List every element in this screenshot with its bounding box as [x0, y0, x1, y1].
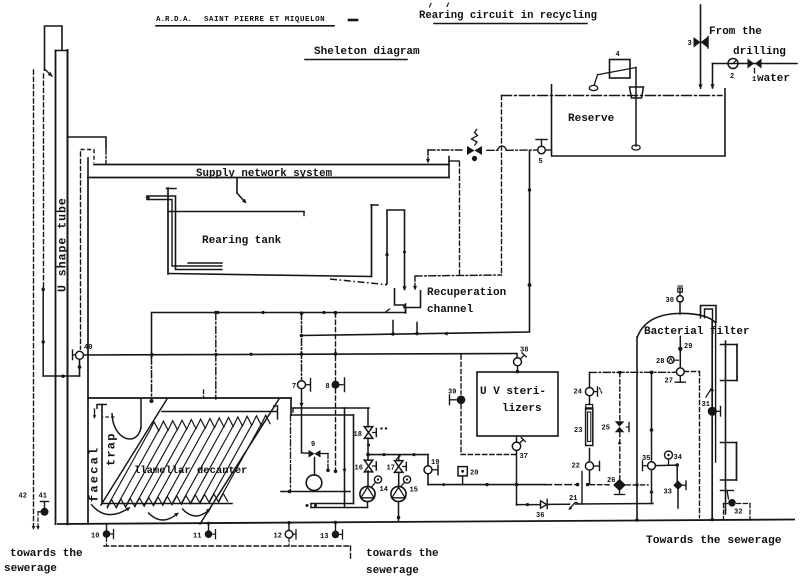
- stub x393: [391, 321, 394, 336]
- lamella bottom zigzag: [107, 494, 228, 509]
- svg-text:Recuperation: Recuperation: [427, 287, 506, 299]
- valve 27: [665, 368, 686, 386]
- valve 40: [43, 344, 92, 378]
- check valve 36: [536, 499, 547, 520]
- dashed stub into decanter: [203, 390, 205, 398]
- svg-text:4: 4: [616, 51, 620, 59]
- valve 33: [664, 481, 687, 509]
- pump manifold: [366, 453, 428, 457]
- svg-text:12: 12: [274, 533, 282, 541]
- drop pipe from channel to rearing tank: [237, 178, 248, 205]
- air valve 30: [666, 286, 684, 314]
- water meter 2: [728, 59, 738, 82]
- valve 21: [567, 495, 578, 511]
- svg-text:23: 23: [574, 427, 582, 435]
- filter right wall: [725, 341, 727, 514]
- valve 6 solenoid: [467, 129, 482, 161]
- svg-text:19: 19: [431, 459, 439, 467]
- svg-text:towards the: towards the: [366, 548, 439, 560]
- gauge 34: [665, 451, 682, 465]
- svg-text:9: 9: [311, 441, 315, 449]
- svg-text:40: 40: [84, 344, 92, 352]
- pipe to valve 21: [548, 503, 570, 505]
- svg-text:Towards the sewerage: Towards the sewerage: [646, 535, 782, 547]
- pump 14: [360, 471, 388, 508]
- label From the drilling water: [709, 26, 790, 85]
- motor 28: [656, 357, 679, 366]
- dashed trap connection: [102, 409, 115, 417]
- svg-text:29: 29: [684, 343, 692, 351]
- rotameter 23: [574, 405, 593, 446]
- svg-text:11: 11: [193, 533, 201, 541]
- svg-text:U V steri-: U V steri-: [480, 386, 546, 398]
- feed arrow into channel from valve 6 line: [426, 150, 430, 164]
- svg-text:lizers: lizers: [502, 403, 542, 415]
- float valve 4 controller box: [589, 51, 643, 150]
- pump discharge line y333: [300, 332, 530, 338]
- bypass down from UV outlet: [517, 485, 541, 507]
- dashed level control line down: [501, 96, 503, 276]
- svg-text:llamellar decanter: llamellar decanter: [134, 465, 247, 477]
- dashed drain line left: [33, 70, 35, 526]
- recuperation channel cup: [395, 288, 421, 308]
- lamella plates: [107, 424, 261, 507]
- pipe from tube to supply channel: [68, 137, 107, 163]
- decanter outlet pipe: [291, 408, 369, 508]
- valve 17: [387, 455, 407, 473]
- svg-text:8: 8: [326, 383, 330, 391]
- junction dots bottom: [635, 518, 714, 522]
- filter downpipe: [706, 320, 716, 519]
- svg-text:trap: trap: [105, 432, 119, 466]
- svg-text:1: 1: [752, 76, 756, 84]
- main bottom line: [57, 520, 795, 525]
- svg-text:10: 10: [91, 533, 99, 541]
- supply network channel: [88, 157, 459, 178]
- svg-text:25: 25: [602, 425, 610, 433]
- svg-text:Rearing circuit in recycling: Rearing circuit in recycling: [419, 10, 597, 22]
- svg-text:sewerage: sewerage: [4, 563, 57, 575]
- dashed return line from valve 27: [684, 372, 699, 518]
- svg-text:sewerage: sewerage: [366, 565, 419, 577]
- svg-text:14: 14: [380, 486, 388, 494]
- riser to valve 35: [649, 470, 653, 504]
- riser to valve 18: [367, 409, 369, 428]
- svg-text:From the: From the: [709, 26, 762, 38]
- svg-text:26: 26: [607, 477, 615, 485]
- valve 9: [309, 441, 330, 472]
- arrow into tube: [45, 69, 54, 78]
- blower circle: [281, 458, 350, 494]
- svg-text:27: 27: [665, 378, 673, 386]
- filter vent bend: [701, 306, 717, 324]
- filter module bracket 2: [721, 443, 737, 481]
- svg-text:SAINT PIERRE ET MIQUELON: SAINT PIERRE ET MIQUELON: [204, 16, 325, 24]
- valve 18: [354, 427, 388, 447]
- valve 38: [514, 347, 529, 374]
- svg-text:28: 28: [656, 358, 664, 366]
- title A.R.D.A. SAINT PIERRE ET MIQUELON: [156, 16, 357, 26]
- title Rearing circuit in recycling: [419, 3, 597, 24]
- decanter inner tank: [97, 405, 232, 504]
- dashed line channel end to recuperation: [459, 162, 461, 275]
- pump 15: [391, 472, 418, 521]
- svg-text:21: 21: [569, 495, 577, 503]
- dash-dot return line y275: [415, 275, 502, 276]
- svg-text:faecal: faecal: [88, 446, 102, 502]
- svg-text:31: 31: [702, 401, 710, 409]
- label Recuperation channel: [427, 287, 506, 316]
- svg-text:22: 22: [572, 463, 580, 471]
- svg-text:5: 5: [539, 158, 543, 166]
- water level line: [502, 95, 723, 97]
- rearing tank inlet pipe: [145, 196, 223, 270]
- svg-text:13: 13: [320, 533, 328, 541]
- svg-text:Bacterial filter: Bacterial filter: [644, 326, 750, 338]
- pipe valve18 to manifold: [367, 438, 369, 460]
- svg-text:A.R.D.A.: A.R.D.A.: [156, 16, 192, 24]
- pipe to bacterial filter x651: [650, 372, 654, 461]
- drain valve 12: [274, 521, 297, 546]
- bacterial filter left wall: [636, 337, 638, 521]
- main treated line y354 valve40 to UV: [84, 352, 518, 356]
- svg-text:37: 37: [520, 453, 528, 461]
- drain valve 13: [320, 521, 343, 541]
- drain valve 10: [91, 524, 114, 546]
- svg-text:17: 17: [387, 465, 395, 473]
- svg-text:Rearing tank: Rearing tank: [202, 235, 282, 247]
- dash-dot drop x215: [214, 311, 217, 399]
- sensor 29: [678, 343, 692, 351]
- svg-text:33: 33: [664, 489, 672, 497]
- svg-text:39: 39: [448, 389, 456, 397]
- stub x582: [581, 472, 583, 504]
- valve 16: [355, 460, 377, 472]
- label towards the sewerage left: [4, 548, 83, 575]
- decanter outer box: [88, 398, 291, 415]
- filter inlet pipe: [679, 337, 681, 368]
- dashed sewer collector: [104, 546, 351, 561]
- drop to faecal trap x151: [150, 313, 154, 404]
- dashed vertical to valve 40: [80, 152, 82, 349]
- svg-text:16: 16: [355, 465, 363, 473]
- svg-text:38: 38: [520, 347, 528, 355]
- U shape tube top bend: [45, 26, 63, 71]
- drilling water supply line: [698, 5, 797, 89]
- svg-text:34: 34: [674, 454, 682, 462]
- svg-text:30: 30: [666, 297, 674, 305]
- pump 31: [702, 401, 721, 416]
- discharge line y484: [428, 483, 589, 487]
- dashed bypass valve 25: [602, 373, 630, 480]
- svg-text:water: water: [757, 73, 790, 85]
- decanter water line: [162, 406, 278, 419]
- dashed branch to channel: [81, 150, 95, 164]
- valve 24: [574, 387, 603, 405]
- decanter right slant: [200, 399, 279, 524]
- svg-text:41: 41: [39, 493, 47, 501]
- svg-text:18: 18: [354, 431, 362, 439]
- svg-text:32: 32: [734, 509, 742, 517]
- valve 19: [424, 455, 439, 485]
- label 42 dashed drain: [19, 493, 40, 531]
- label U V sterilizers: [480, 386, 546, 415]
- svg-text:channel: channel: [427, 304, 474, 316]
- inlet arrow into trap: [93, 409, 96, 419]
- valve 22: [572, 449, 600, 485]
- U shape tube walls: [56, 50, 68, 524]
- riser pipe x530: [528, 151, 532, 332]
- pipe down from supply channel left: [87, 178, 89, 524]
- faecal trap pipe: [112, 399, 141, 439]
- svg-text:20: 20: [470, 470, 478, 478]
- stub x417: [415, 323, 418, 336]
- dashed arrow into cup: [413, 277, 417, 291]
- dash-dot header y372: [590, 371, 677, 388]
- decanter wall air line: [290, 415, 292, 490]
- reserve tank: [552, 84, 726, 156]
- return main line y312: [152, 304, 405, 314]
- sludge arc 3: [182, 507, 212, 516]
- branch valve 7: [292, 311, 311, 453]
- filter module bracket 1: [721, 345, 738, 381]
- valve 5: [536, 140, 547, 167]
- svg-text:15: 15: [410, 487, 418, 495]
- pressure switch 20: [458, 467, 478, 485]
- svg-text:3: 3: [688, 40, 692, 48]
- dashed bypass valve 39: [448, 355, 516, 455]
- sloped drain under tank: [330, 279, 387, 285]
- svg-text:42: 42: [19, 493, 27, 501]
- dashed line from U tube leg: [43, 74, 45, 288]
- sludge arc 2: [148, 511, 180, 520]
- svg-text:24: 24: [574, 389, 582, 397]
- standpipe siphon: [385, 210, 407, 291]
- svg-text:towards the: towards the: [10, 548, 83, 560]
- svg-text:35: 35: [642, 455, 650, 463]
- lamella top zigzag: [150, 415, 271, 431]
- rearing tank walls: [167, 188, 379, 277]
- branch to valve 33: [655, 463, 679, 481]
- UV sterilizers box: [477, 372, 558, 436]
- drain valve 11: [193, 522, 216, 541]
- svg-text:7: 7: [292, 383, 296, 391]
- title Sheleton diagram: [305, 46, 420, 60]
- branch valve 8 dashed: [326, 311, 345, 473]
- svg-text:drilling: drilling: [733, 46, 786, 58]
- valve 35: [642, 455, 655, 471]
- svg-text:36: 36: [536, 512, 544, 520]
- drain valve 32: [721, 491, 751, 519]
- dash-dot line valve6 to reserve: [428, 146, 552, 150]
- svg-text:2: 2: [730, 73, 734, 81]
- sludge arc 1: [91, 504, 132, 515]
- valve 3: [688, 37, 709, 49]
- valve 37: [512, 436, 528, 485]
- decanter left slant: [101, 399, 167, 505]
- bacterial filter dome: [637, 313, 716, 338]
- svg-text:Sheleton diagram: Sheleton diagram: [314, 46, 420, 58]
- sludge valve 41: [38, 493, 49, 527]
- svg-text:Reserve: Reserve: [568, 113, 615, 125]
- valve 1: [748, 59, 762, 85]
- cup drain stub: [405, 308, 407, 314]
- bypass to riser: [576, 503, 654, 506]
- valve 26 drain: [591, 477, 649, 495]
- label towards the sewerage mid: [366, 548, 439, 577]
- svg-text:U shape tube: U shape tube: [57, 197, 70, 292]
- svg-text:Supply network system: Supply network system: [196, 168, 333, 180]
